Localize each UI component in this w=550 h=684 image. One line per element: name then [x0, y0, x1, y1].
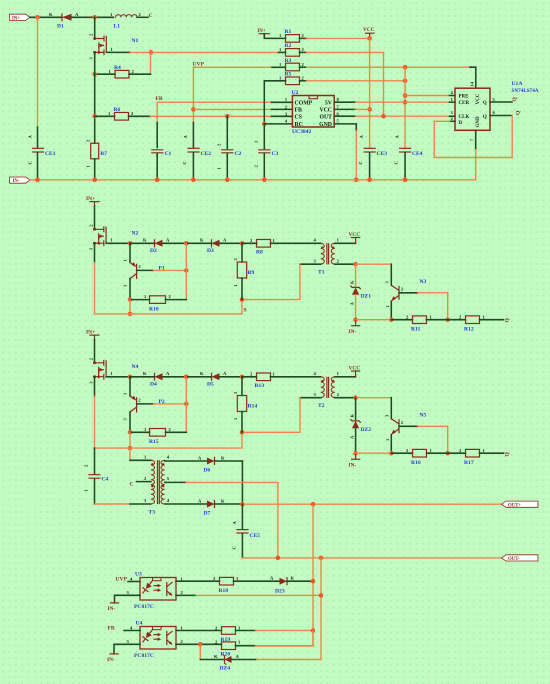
- resistor R13: [250, 372, 276, 389]
- svg-text:U4: U4: [136, 621, 143, 627]
- power VCC top: [363, 27, 375, 38]
- port OUT+: [502, 501, 539, 508]
- svg-text:OUT: OUT: [319, 115, 332, 121]
- wire RC row to U2 pin4: [264, 123, 292, 125]
- wire R4 leads: [95, 73, 115, 75]
- svg-text:14: 14: [470, 81, 475, 86]
- wire CE4 to rail: [404, 153, 406, 180]
- svg-text:5V: 5V: [325, 100, 333, 106]
- svg-text:N2: N2: [132, 231, 139, 237]
- wire D to Qbar feedback: [434, 116, 512, 158]
- capacitor C4: [84, 448, 109, 504]
- node DZ4 branch junction: [198, 642, 203, 647]
- svg-text:C: C: [130, 481, 134, 487]
- resistor R16: [391, 448, 447, 466]
- transistor P1 (PNP): [123, 243, 187, 299]
- node D6-D7 junction: [240, 502, 245, 507]
- zener DZ1: [350, 264, 372, 320]
- wire UVP vertical / CE2 column: [192, 67, 194, 122]
- svg-text:R12: R12: [464, 327, 474, 333]
- svg-text:PC817C: PC817C: [134, 604, 154, 610]
- resistor R8: [250, 238, 276, 255]
- diode D23: [270, 576, 295, 595]
- svg-text:P1: P1: [159, 266, 165, 272]
- diode D2: [143, 238, 170, 254]
- wire R15 to rail3: [129, 432, 131, 448]
- svg-text:L1: L1: [114, 24, 121, 30]
- resistor R15: [130, 427, 186, 445]
- svg-text:CLR: CLR: [459, 101, 470, 106]
- svg-text:Q: Q: [483, 115, 487, 120]
- wire vertical A (OUT+ to R19/R20): [256, 504, 314, 646]
- resistor R18: [213, 576, 239, 594]
- svg-text:R6: R6: [114, 107, 121, 113]
- wire IN+ vertical to CE1: [37, 17, 39, 127]
- wire R5 row right: [300, 80, 307, 82]
- svg-text:R1: R1: [285, 29, 292, 35]
- svg-text:R2: R2: [285, 43, 292, 49]
- svg-text:R7: R7: [100, 151, 107, 157]
- power VCC T2: [349, 365, 361, 377]
- node CLR row junction: [403, 100, 408, 105]
- svg-text:IN-: IN-: [13, 179, 20, 184]
- svg-text:K: K: [221, 455, 225, 460]
- wire CE3 to rail: [369, 153, 371, 180]
- node U2 VCC pin junction: [367, 107, 372, 112]
- power IN- bar U3: [108, 603, 119, 612]
- svg-text:Q: Q: [516, 110, 522, 115]
- wire T2 pin1 to VCC: [335, 376, 356, 378]
- power IN- bar DZ1: [349, 320, 360, 335]
- node N3 base junction: [445, 317, 450, 322]
- wire D5 leads: [186, 376, 211, 378]
- svg-text:IN-: IN-: [349, 329, 357, 335]
- wire T3 pin5 to OUT-: [165, 481, 186, 483]
- transistor N1 (NMOS): [89, 33, 139, 60]
- node D5-R13 junction: [240, 375, 245, 380]
- wire N1 gate: [106, 51, 130, 53]
- svg-text:R13: R13: [255, 383, 265, 389]
- svg-text:D2: D2: [150, 248, 157, 254]
- capacitor C1: [152, 150, 172, 157]
- wire rail3 to T3 pin1: [129, 448, 131, 460]
- svg-text:CS: CS: [295, 115, 302, 121]
- node R19 junction: [311, 628, 316, 633]
- svg-text:C: C: [394, 161, 399, 164]
- wire base column section3: [185, 377, 187, 433]
- svg-text:R8: R8: [256, 249, 263, 255]
- wire T2 pin3 to R14 row: [300, 397, 321, 399]
- wire C1 to rail: [156, 154, 158, 180]
- svg-text:K: K: [350, 280, 355, 284]
- svg-text:C4: C4: [102, 477, 109, 483]
- wire N2 gate: [106, 242, 130, 244]
- svg-text:D5: D5: [207, 381, 214, 387]
- wire R13 leads to T2: [242, 376, 257, 378]
- node OUT- junctions: [276, 556, 281, 561]
- node R14 bottom junction: [240, 430, 245, 435]
- wire U1A pin7 to rail: [475, 130, 477, 150]
- node C2 junction: [225, 114, 230, 119]
- capacitor CE2: [182, 135, 211, 165]
- svg-text:C: C: [28, 161, 33, 164]
- node OUT gate junction: [381, 114, 386, 119]
- svg-text:U2: U2: [292, 90, 299, 96]
- svg-text:N5: N5: [420, 413, 427, 419]
- opto U3 PC817C: [134, 572, 176, 611]
- wire R18 to D23: [234, 580, 280, 582]
- node R4 junction: [92, 72, 97, 77]
- resistor R3: [279, 58, 305, 71]
- svg-text:DZ2: DZ2: [361, 427, 372, 433]
- svg-text:DZ1: DZ1: [361, 294, 372, 300]
- node N5 emitter junction: [389, 451, 394, 456]
- wire ground rail: [30, 179, 476, 181]
- resistor R11: [391, 314, 447, 332]
- node FB pin junction: [191, 107, 196, 112]
- svg-text:Q: Q: [505, 318, 511, 323]
- wire U2 pin7 VCC row: [334, 108, 355, 110]
- node R5 row junction: [403, 79, 408, 84]
- svg-text:U1A: U1A: [512, 81, 523, 87]
- svg-text:R3: R3: [285, 58, 292, 64]
- svg-text:IN-: IN-: [349, 462, 357, 468]
- wire R5 to C3 column: [264, 81, 285, 124]
- wire D23 to vertical A: [287, 580, 313, 582]
- node D23 junction: [311, 579, 316, 584]
- node P1 base junction: [184, 268, 189, 273]
- diode D5: [200, 371, 227, 387]
- wire R10 to S rail: [129, 300, 131, 314]
- wire DZ2 to R16: [356, 452, 392, 454]
- power IN+ bar section3: [86, 330, 99, 340]
- transistor N4 (NMOS): [88, 357, 138, 384]
- wire C2 to rail: [226, 154, 228, 180]
- svg-text:R9: R9: [248, 270, 255, 276]
- capacitor CE4: [394, 135, 423, 165]
- wire gate row to R2: [151, 51, 279, 53]
- wire L1 to C: [137, 16, 148, 18]
- wire IN+ to D1: [30, 16, 62, 18]
- svg-text:CLK: CLK: [459, 115, 470, 120]
- power IN- bar U4: [107, 654, 118, 663]
- wire UVP row to R3: [193, 66, 272, 68]
- wire CE4 column: [404, 67, 406, 147]
- resistor R7: [86, 139, 108, 168]
- node rail junctions: [35, 178, 40, 183]
- svg-text:C: C: [232, 546, 237, 549]
- power IN+ bar section2: [86, 196, 99, 206]
- svg-text:RC: RC: [295, 122, 303, 128]
- svg-text:C: C: [149, 13, 153, 19]
- node gate junction: [149, 50, 154, 55]
- svg-text:D6: D6: [204, 468, 211, 474]
- node T1 pin2 junction: [353, 262, 358, 267]
- wire N4 source to rail3: [94, 377, 96, 396]
- svg-text:D23: D23: [275, 589, 285, 595]
- diode D1: [49, 12, 79, 30]
- svg-text:CE3: CE3: [377, 151, 388, 157]
- diode D3: [200, 238, 227, 254]
- svg-text:C: C: [182, 161, 187, 164]
- svg-text:R20: R20: [221, 652, 231, 658]
- node GND rail junction: [354, 178, 359, 183]
- resistor R17: [448, 448, 504, 466]
- node R6 junction: [92, 114, 97, 119]
- wire node to N1 drain: [94, 17, 96, 38]
- svg-text:C1: C1: [165, 151, 172, 157]
- wire N2 source to S rail: [94, 243, 96, 262]
- resistor R14: [233, 377, 258, 433]
- wire D input: [450, 120, 456, 122]
- wire CE1 to rail: [37, 153, 39, 180]
- wire to N5 collector: [356, 397, 392, 399]
- wire D6 down to OUT+ node: [241, 461, 243, 504]
- svg-text:PRE: PRE: [459, 94, 470, 99]
- capacitor C3: [254, 140, 279, 168]
- svg-text:N1: N1: [132, 38, 139, 44]
- svg-text:UC3842: UC3842: [292, 129, 311, 135]
- svg-text:FB: FB: [295, 108, 303, 114]
- svg-text:T1: T1: [318, 270, 325, 276]
- wire U2 pin6 OUT row to CLK: [334, 115, 355, 117]
- svg-text:K: K: [214, 654, 218, 659]
- svg-text:K: K: [143, 371, 147, 376]
- svg-text:D4: D4: [150, 381, 157, 387]
- transistor N2 (NMOS): [88, 224, 138, 251]
- svg-text:S: S: [244, 308, 247, 314]
- svg-text:COMP: COMP: [295, 100, 313, 106]
- inductor L1: [110, 12, 142, 30]
- wire VCC column to CE3: [369, 38, 371, 147]
- wire Q output: [490, 101, 512, 103]
- svg-text:R15: R15: [149, 439, 159, 445]
- svg-text:R14: R14: [248, 404, 258, 410]
- svg-text:OUT-: OUT-: [508, 557, 520, 562]
- svg-text:D1: D1: [57, 24, 64, 30]
- wire DZ4 branch down: [199, 644, 201, 659]
- wire C2 column: [226, 116, 228, 148]
- node PRE row junction: [403, 93, 408, 98]
- svg-text:P2: P2: [159, 399, 165, 405]
- svg-text:C: C: [358, 161, 363, 164]
- svg-text:D: D: [459, 121, 463, 126]
- node S rail junction: [128, 312, 133, 317]
- diode D7: [165, 498, 243, 516]
- wire N4 gate: [106, 376, 130, 378]
- transistor N3 (NPN): [385, 264, 448, 320]
- node rail3 junction: [128, 446, 133, 451]
- transistor N5 (NPN): [385, 398, 448, 454]
- svg-text:N4: N4: [132, 364, 139, 370]
- wire U2 pin5 GND to rail: [334, 124, 356, 131]
- node N5 base junction: [445, 451, 450, 456]
- wire N1 source column: [94, 52, 96, 143]
- svg-text:Q: Q: [505, 452, 511, 457]
- svg-text:U3: U3: [135, 572, 142, 578]
- resistor R1: [279, 29, 305, 42]
- node D4-D5 junction: [184, 375, 189, 380]
- svg-text:CE4: CE4: [412, 151, 423, 157]
- svg-text:VCC: VCC: [319, 108, 332, 114]
- wire IN+ to N4 drain: [94, 340, 96, 363]
- node DZ1 bottom junction: [353, 317, 358, 322]
- flip-flop U1A SN74LS74A: [451, 81, 539, 141]
- diode D4: [143, 371, 170, 387]
- wire R1 to VCC: [300, 37, 307, 39]
- wire T2 pin2: [335, 397, 356, 399]
- svg-text:DZ4: DZ4: [220, 666, 231, 672]
- wire D1 to L1 node: [72, 16, 114, 18]
- svg-text:R16: R16: [411, 460, 421, 466]
- port IN-: [10, 177, 31, 184]
- wire U2 pin8 5V row to CLR: [334, 101, 355, 103]
- svg-text:C2: C2: [235, 151, 242, 157]
- svg-text:R5: R5: [285, 72, 292, 78]
- svg-text:D7: D7: [204, 511, 211, 517]
- node IN+ junction: [35, 15, 40, 20]
- transformer T3: [130, 455, 170, 516]
- svg-text:D3: D3: [207, 248, 214, 254]
- transistor P2 (PNP): [123, 377, 187, 433]
- svg-text:Q: Q: [512, 97, 518, 102]
- node R15 left junction: [128, 430, 133, 435]
- port IN+ bar (R1 feed): [258, 29, 270, 34]
- resistor R10: [130, 294, 186, 312]
- op-amp U2 UC3842: [285, 90, 340, 135]
- wire PRE row: [405, 95, 449, 97]
- svg-text:K: K: [200, 238, 204, 243]
- svg-text:R17: R17: [464, 460, 474, 466]
- wire T1 pin2: [335, 263, 356, 265]
- svg-text:GND: GND: [476, 116, 481, 128]
- transformer T2: [314, 371, 340, 409]
- wire R3 to U1A pin14: [300, 66, 307, 68]
- node RC junction: [262, 122, 267, 127]
- wire base column: [185, 243, 187, 299]
- wire port to R1: [264, 34, 285, 39]
- node P2 base junction: [184, 402, 189, 407]
- svg-text:VCC: VCC: [363, 27, 375, 33]
- wire C3 to rail: [263, 154, 265, 180]
- svg-text:T2: T2: [318, 403, 325, 409]
- capacitor CE3: [358, 135, 387, 165]
- capacitor CE1: [28, 135, 56, 165]
- resistor R6: [108, 107, 134, 120]
- svg-text:N3: N3: [420, 279, 427, 285]
- svg-text:IN+: IN+: [12, 16, 20, 21]
- node R10 left junction: [128, 297, 133, 302]
- node gate3 junction: [128, 375, 133, 380]
- diode D6: [165, 455, 243, 473]
- svg-text:K: K: [291, 576, 295, 581]
- wire vertical A dot row adjust: [312, 631, 314, 647]
- wire T1 pin1 to VCC: [335, 242, 356, 244]
- wire FB row to U2 pin2: [193, 108, 271, 110]
- svg-text:K: K: [350, 414, 355, 418]
- wire R20 to vertical A end: [236, 645, 256, 647]
- wire T1 pin3 to S row: [300, 263, 321, 265]
- node CE4 top junction: [403, 65, 408, 70]
- svg-text:IN-: IN-: [107, 657, 115, 663]
- power VCC T1: [349, 232, 361, 244]
- capacitor C2: [217, 143, 242, 170]
- svg-text:K: K: [143, 238, 147, 243]
- wire R8 leads to T1: [242, 242, 257, 244]
- node DZ2 bottom junction: [353, 451, 358, 456]
- svg-text:FB: FB: [156, 96, 163, 102]
- node D2-D3 junction: [184, 241, 189, 246]
- svg-text:SN74LS74A: SN74LS74A: [512, 88, 539, 94]
- zener DZ4: [200, 654, 255, 672]
- wire C4 to T3 pin3: [95, 503, 131, 505]
- svg-text:GND: GND: [319, 122, 332, 128]
- transformer T1: [314, 238, 340, 276]
- svg-text:C3: C3: [272, 151, 279, 157]
- port IN+: [10, 14, 31, 21]
- wire R2 to OUT column: [300, 51, 307, 53]
- power IN- bar DZ2: [349, 453, 360, 468]
- svg-text:K: K: [49, 12, 53, 17]
- node N3 emitter junction: [389, 317, 394, 322]
- wire DZ1 to R11: [356, 319, 392, 321]
- resistor R2: [279, 43, 305, 56]
- svg-text:OUT+: OUT+: [508, 503, 521, 508]
- wire Qbar output: [490, 115, 512, 117]
- wire D3 leads: [186, 242, 211, 244]
- wire R7 to rail: [94, 159, 96, 180]
- svg-text:R4: R4: [114, 65, 121, 71]
- node R9 bottom junction: [240, 297, 245, 302]
- capacitor CE5: [232, 504, 261, 558]
- svg-text:CE2: CE2: [201, 151, 212, 157]
- svg-text:K: K: [221, 498, 225, 503]
- svg-text:CE5: CE5: [250, 533, 261, 539]
- resistor R19: [215, 625, 241, 643]
- resistor R9: [233, 243, 255, 299]
- wire CE2 to rail: [192, 153, 194, 180]
- node gate2 junction: [128, 241, 133, 246]
- svg-text:R10: R10: [149, 307, 159, 313]
- wire C3 column: [263, 124, 265, 149]
- resistor R4: [109, 65, 135, 78]
- node OUT+ vertical junction: [311, 502, 316, 507]
- node U3 pin2 junction: [319, 593, 324, 598]
- svg-text:VCC: VCC: [476, 93, 481, 104]
- svg-text:CE1: CE1: [45, 151, 56, 157]
- node D3-R8 junction: [240, 241, 245, 246]
- wire R6 leads / CS row to U2 pin3: [95, 115, 115, 117]
- wire OUT- rail: [242, 557, 501, 559]
- wire D4 leads: [130, 376, 155, 378]
- opto U4 PC817C: [134, 621, 176, 660]
- wire OUT+ rail: [242, 503, 501, 505]
- wire R19 to vertical A: [236, 630, 256, 632]
- zener DZ2: [350, 398, 372, 454]
- node VCC junction: [367, 36, 372, 41]
- svg-text:R18: R18: [219, 588, 229, 594]
- svg-text:UVP: UVP: [116, 577, 128, 583]
- svg-text:FB: FB: [108, 626, 115, 632]
- wire IN+ to N2 drain: [94, 206, 96, 229]
- svg-text:K: K: [200, 371, 204, 376]
- node drain junction: [92, 15, 97, 20]
- node T2 pin2 junction: [353, 395, 358, 400]
- svg-text:IN-: IN-: [108, 606, 116, 612]
- resistor R5: [279, 72, 305, 85]
- svg-text:T3: T3: [149, 510, 156, 516]
- port OUT-: [502, 555, 539, 562]
